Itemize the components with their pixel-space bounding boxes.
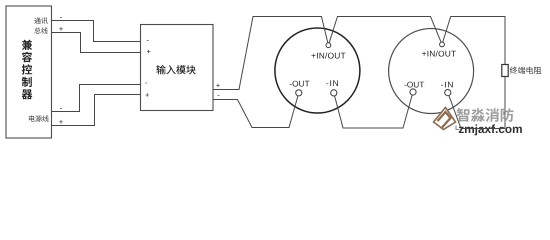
watermark 智淼消防 — [457, 108, 514, 122]
terminal dot -IN base2 — [445, 90, 451, 96]
wire power-plus controller to module — [52, 95, 141, 126]
pin label -OUT base2 — [404, 82, 424, 88]
label 兼容控制器 — [22, 40, 33, 100]
polarity + at controller comm — [59, 27, 63, 31]
polarity - at controller power — [60, 107, 62, 110]
terminal dot +IN/OUT base2 — [440, 42, 445, 47]
wire - : base1 -IN to base2 -OUT — [334, 92, 413, 128]
terminal dot +IN/OUT base1 — [326, 43, 331, 48]
module pin - power — [145, 82, 147, 85]
label 输入模块 — [156, 65, 195, 74]
module out - — [218, 94, 220, 97]
wire comm-plus controller to module — [52, 33, 141, 53]
wire + bus: module to top rail, dips to +IN/OUT of both bases, to resistor top — [213, 17, 505, 129]
module pin + comm — [147, 50, 151, 54]
end-of-line resistor 终端电阻 — [502, 65, 508, 77]
wire - : module to -OUT of base 1 — [213, 93, 299, 128]
input module box 输入模块 — [141, 25, 214, 111]
pin label -IN base1 — [326, 80, 338, 86]
watermark logo — [434, 108, 460, 130]
module out + — [216, 84, 220, 88]
terminal dot -IN base1 — [331, 90, 337, 96]
pin label +IN/OUT base1 — [312, 53, 346, 59]
label 通讯 — [34, 18, 48, 24]
controller box 兼容控制器 — [6, 6, 52, 138]
wire - redraw over watermark (strike) — [461, 128, 505, 130]
detector base 2 circle — [389, 29, 474, 114]
module pin - comm — [147, 39, 149, 42]
polarity - at controller comm — [60, 16, 62, 19]
detector base 1 circle — [275, 28, 360, 113]
watermark url — [459, 124, 522, 135]
label 电源线 — [29, 115, 49, 122]
label 总线 — [34, 27, 47, 33]
wire - : base2 -IN to end-of-line resistor bottom — [448, 93, 505, 129]
module pin + power — [145, 93, 149, 97]
pin label -OUT base1 — [290, 81, 310, 87]
polarity + at controller power — [59, 120, 63, 124]
label 终端电阻 — [510, 67, 542, 74]
pin label +IN/OUT base2 — [422, 51, 456, 57]
pin label -IN base2 — [441, 82, 453, 88]
wire comm-minus controller to module — [52, 21, 141, 42]
terminal dot -OUT base2 — [410, 89, 416, 95]
terminal dot -OUT base1 — [296, 90, 302, 96]
wire power-minus controller to module — [52, 85, 141, 112]
